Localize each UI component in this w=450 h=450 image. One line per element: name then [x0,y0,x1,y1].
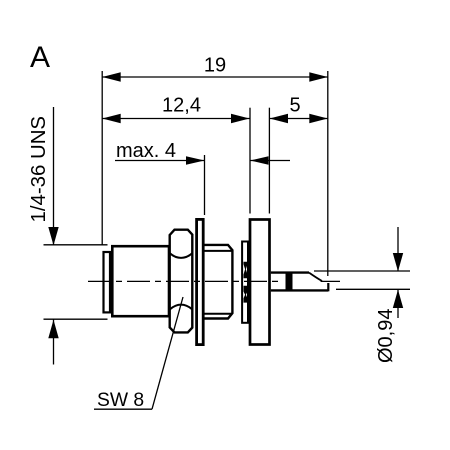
svg-text:19: 19 [204,55,226,77]
svg-text:max. 4: max. 4 [116,140,176,162]
svg-text:SW 8: SW 8 [97,390,144,411]
svg-text:5: 5 [289,95,300,117]
svg-text:A: A [30,41,50,74]
svg-text:Ø0,94: Ø0,94 [375,309,397,363]
svg-text:1/4-36 UNS: 1/4-36 UNS [28,116,50,223]
svg-text:12,4: 12,4 [162,95,201,117]
